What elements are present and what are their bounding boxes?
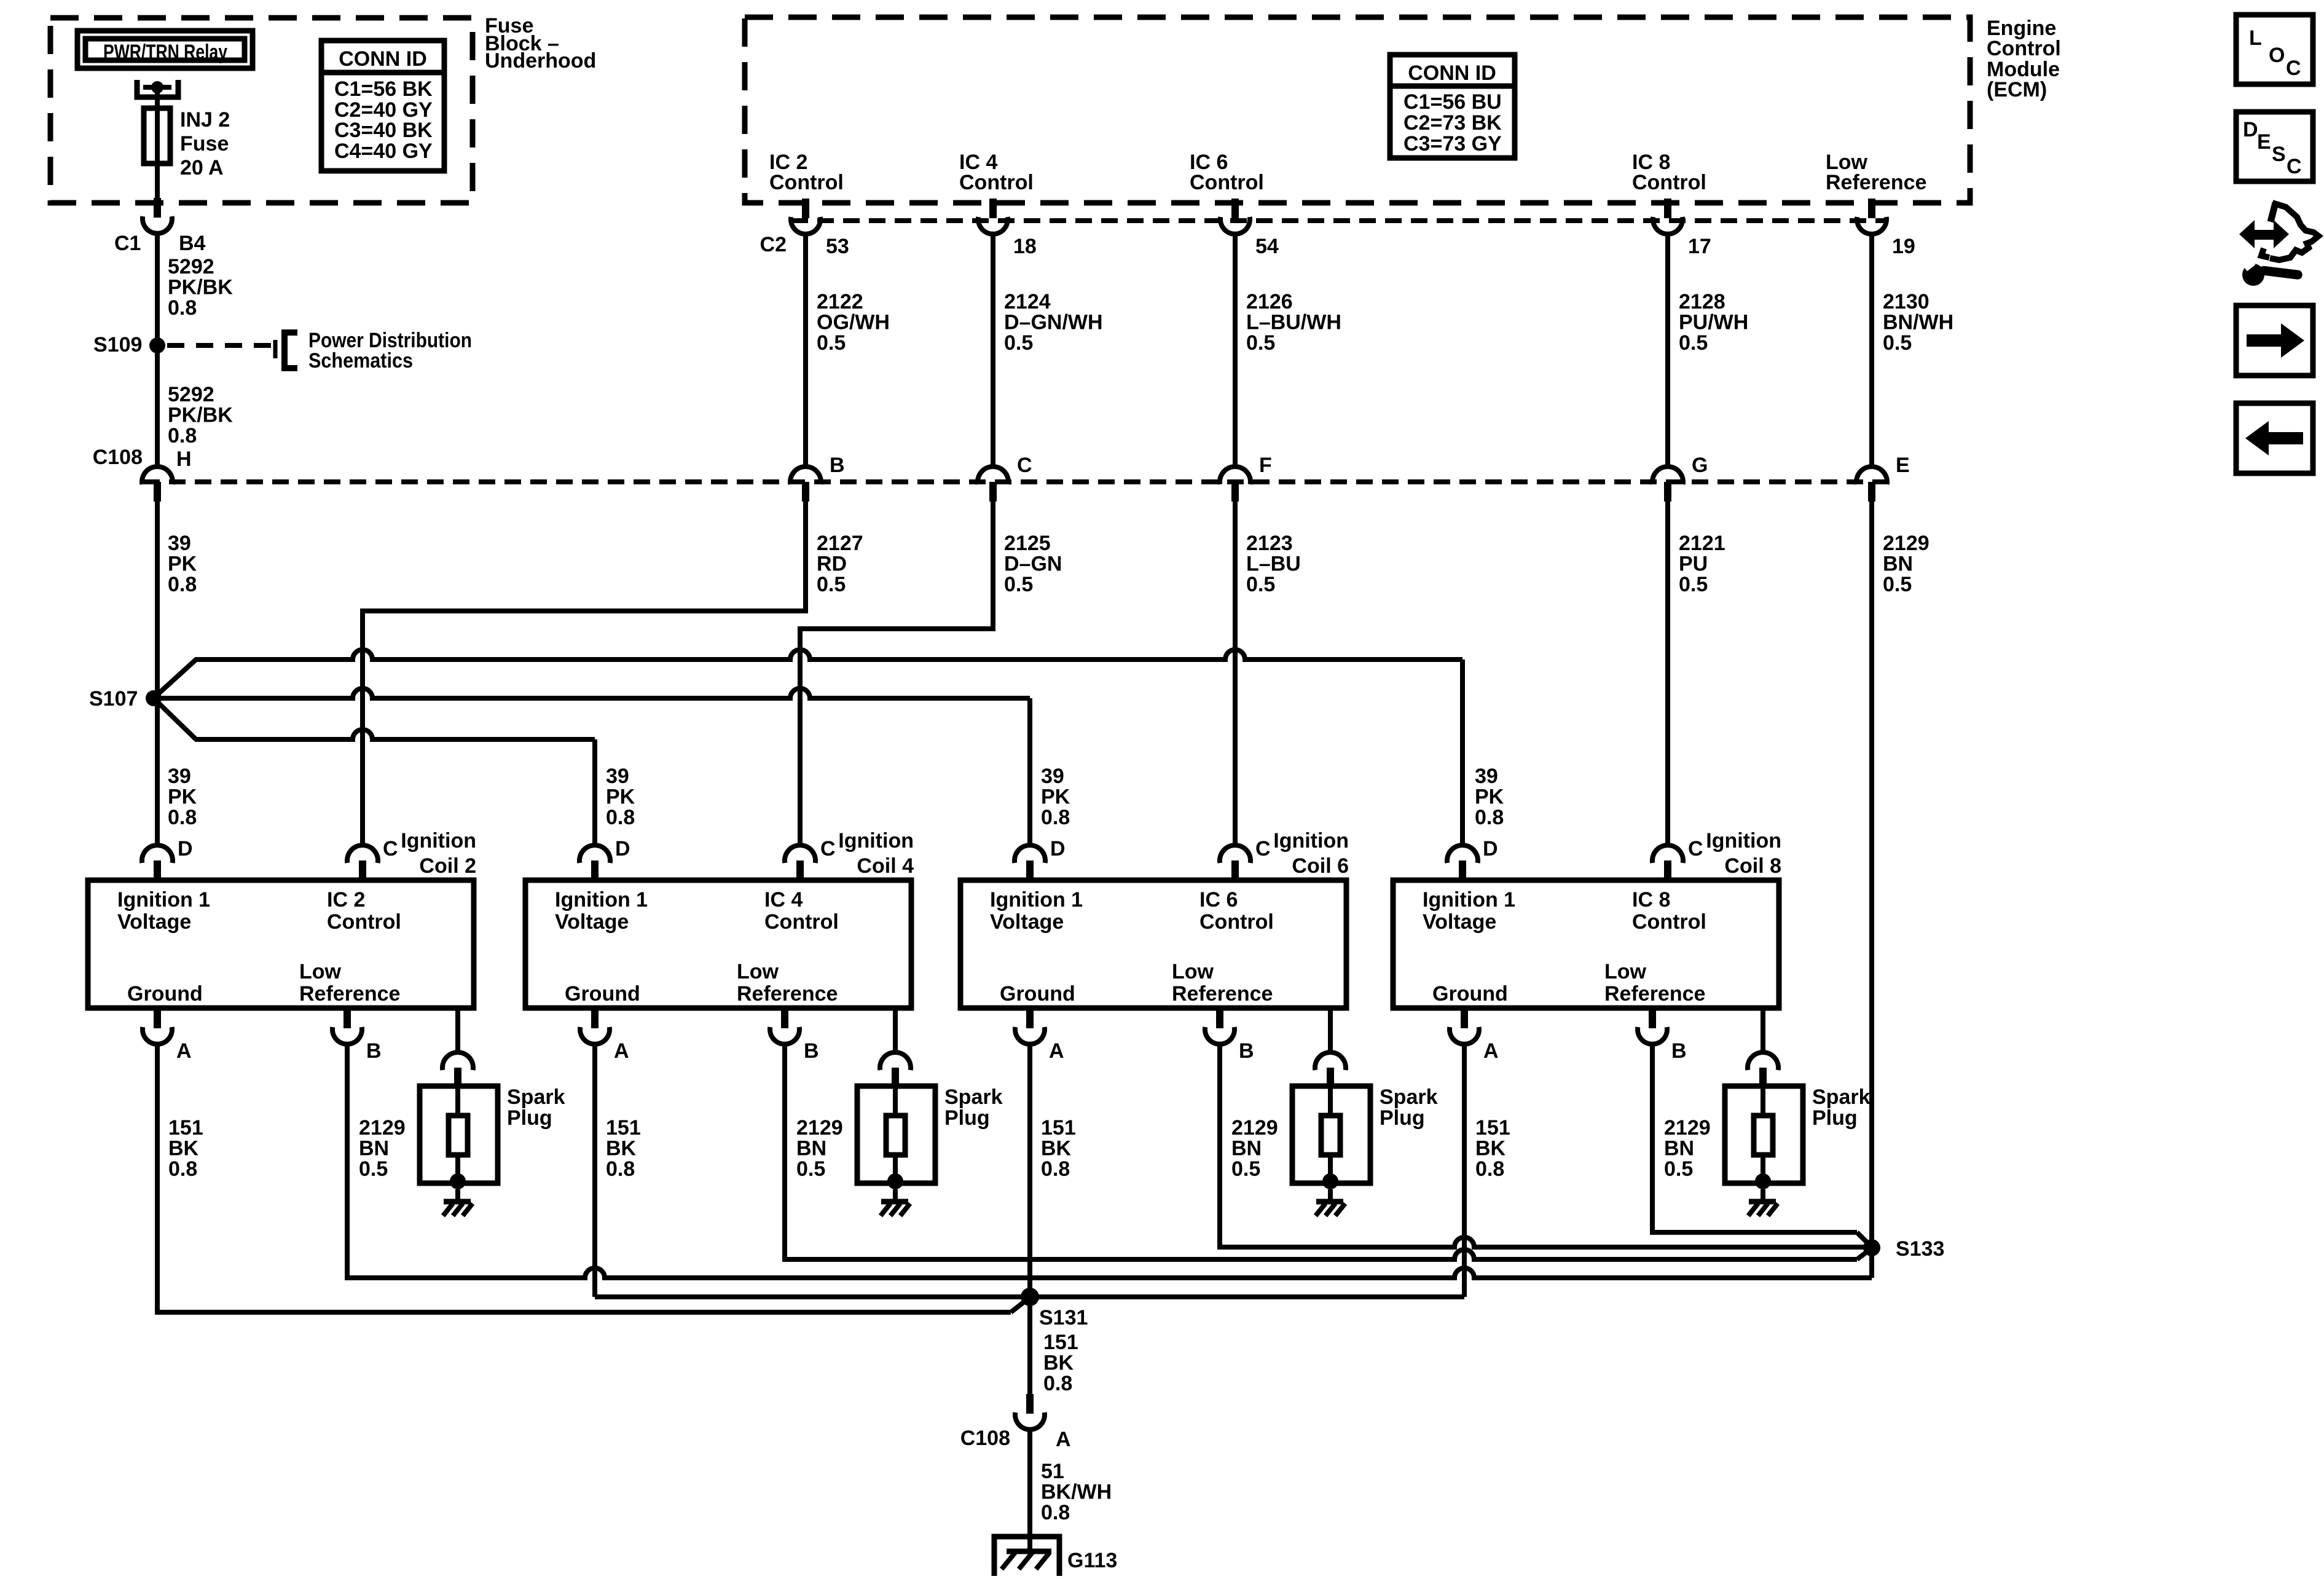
svg-text:CONN ID: CONN ID: [339, 47, 427, 71]
pin C connector: [978, 467, 1008, 502]
svg-text:IC 4: IC 4: [764, 888, 803, 912]
wire coil 8 low reference to S133: [1650, 1044, 1870, 1245]
svg-text:0.5: 0.5: [1004, 331, 1033, 355]
svg-text:O: O: [2269, 44, 2285, 67]
fuse block underhood dashed box: [50, 18, 473, 203]
svg-text:Voltage: Voltage: [990, 910, 1064, 934]
coil 2 pin D connector: [142, 845, 173, 880]
wire 2122 OG/WH: [803, 235, 808, 467]
wire 2125 D-GN to coil 4 C: [798, 502, 995, 847]
svg-text:Ground: Ground: [1000, 982, 1075, 1006]
spark plug connector coil 2: [442, 1052, 473, 1087]
svg-text:51: 51: [1041, 1460, 1064, 1483]
engine control module dashed box: [745, 17, 1970, 203]
ignition coil 8 box: [1393, 880, 1779, 1008]
svg-text:2124: 2124: [1004, 290, 1051, 313]
svg-text:Reference: Reference: [299, 982, 400, 1006]
svg-text:Spark: Spark: [507, 1085, 565, 1109]
wire 39 PK upper: [155, 502, 160, 695]
pin F connector: [1220, 467, 1250, 502]
spark plug connector coil 4: [880, 1052, 911, 1087]
pin 17 connector: [1653, 199, 1682, 234]
svg-text:C2=73 BK: C2=73 BK: [1403, 111, 1502, 135]
svg-text:5292: 5292: [168, 383, 214, 406]
svg-text:S: S: [2272, 143, 2286, 166]
svg-text:0.8: 0.8: [1043, 1372, 1072, 1395]
connector C108 pin A: [1015, 1394, 1045, 1430]
coil 2 pin C connector: [347, 845, 378, 880]
svg-text:0.8: 0.8: [606, 1157, 635, 1181]
svg-text:Ignition 1: Ignition 1: [117, 888, 210, 912]
splice S133: [1863, 1239, 1880, 1256]
svg-text:Plug: Plug: [944, 1106, 990, 1130]
svg-text:2122: 2122: [817, 290, 863, 313]
svg-text:A: A: [1483, 1039, 1499, 1063]
svg-text:Control: Control: [327, 910, 401, 934]
svg-text:39: 39: [168, 765, 191, 788]
svg-text:C4=40 GY: C4=40 GY: [334, 140, 433, 163]
svg-text:0.5: 0.5: [817, 331, 846, 355]
svg-text:19: 19: [1892, 235, 1915, 258]
svg-text:BN: BN: [796, 1137, 826, 1160]
svg-text:A: A: [614, 1039, 629, 1063]
svg-text:B: B: [830, 454, 845, 477]
svg-text:0.8: 0.8: [1041, 1501, 1070, 1524]
svg-text:BN: BN: [1664, 1137, 1694, 1160]
svg-text:BK: BK: [606, 1137, 637, 1160]
svg-text:0.5: 0.5: [1004, 573, 1033, 596]
svg-text:2129: 2129: [1883, 532, 1929, 555]
svg-text:0.5: 0.5: [1664, 1157, 1693, 1181]
spark plug 4 ground: [881, 1189, 910, 1216]
coil 6 pin D connector: [1015, 845, 1045, 880]
coil 6 pin B connector: [1205, 1009, 1235, 1044]
svg-text:Ignition 1: Ignition 1: [1423, 888, 1515, 912]
svg-text:C: C: [1017, 454, 1032, 477]
svg-text:PWR/TRN Relay: PWR/TRN Relay: [103, 41, 227, 64]
svg-text:20 A: 20 A: [180, 156, 224, 179]
svg-text:IC 6: IC 6: [1199, 888, 1238, 912]
spark plug 6 ground: [1316, 1189, 1345, 1216]
wire coil 4 ground to S131: [592, 1044, 597, 1297]
wire coil 6 ground through S131: [1027, 1044, 1032, 1396]
coil 4 pin D connector: [579, 845, 610, 880]
svg-text:2126: 2126: [1246, 290, 1293, 313]
svg-text:B: B: [804, 1039, 819, 1063]
svg-text:Reference: Reference: [1826, 171, 1926, 194]
coil 2 pin B connector: [332, 1009, 362, 1044]
pin G connector: [1652, 467, 1683, 502]
svg-text:Ground: Ground: [127, 982, 203, 1006]
svg-text:IC 8: IC 8: [1632, 888, 1670, 912]
coil 2 pin A connector: [143, 1009, 172, 1044]
svg-text:D: D: [1483, 837, 1498, 860]
svg-text:C1=56 BU: C1=56 BU: [1403, 90, 1502, 114]
splice S131: [1021, 1288, 1039, 1306]
svg-text:2130: 2130: [1883, 290, 1929, 313]
coil 4 pin C connector: [785, 845, 815, 880]
pin 19 connector: [1857, 199, 1886, 234]
svg-text:BK: BK: [1475, 1137, 1506, 1160]
svg-text:17: 17: [1688, 235, 1711, 258]
coil 4 pin A connector: [580, 1009, 610, 1044]
svg-text:C: C: [1255, 837, 1271, 860]
svg-text:0.8: 0.8: [168, 296, 197, 320]
svg-text:C3=73 GY: C3=73 GY: [1403, 132, 1502, 156]
svg-text:5292: 5292: [168, 255, 214, 278]
svg-text:Control: Control: [1199, 910, 1274, 934]
splice S109: [149, 337, 165, 353]
svg-text:0.8: 0.8: [168, 573, 197, 596]
svg-text:CONN ID: CONN ID: [1408, 61, 1496, 85]
svg-text:C: C: [1688, 837, 1703, 860]
spark plug wire coil 2: [455, 1008, 460, 1053]
svg-text:Low: Low: [1604, 960, 1647, 983]
svg-text:S109: S109: [93, 333, 142, 356]
svg-text:0.8: 0.8: [168, 424, 197, 447]
coil 8 pin D connector: [1447, 845, 1478, 880]
ignition coil 2 box: [88, 880, 474, 1008]
svg-text:151: 151: [1041, 1116, 1076, 1140]
svg-text:D: D: [1050, 837, 1066, 860]
svg-text:BK: BK: [168, 1137, 199, 1160]
svg-text:0.5: 0.5: [1679, 573, 1708, 596]
wire 2127 RD to coil 2 C: [360, 502, 808, 847]
svg-text:PU: PU: [1679, 553, 1708, 576]
svg-text:Coil 2: Coil 2: [419, 854, 476, 878]
svg-text:Spark: Spark: [1812, 1085, 1871, 1109]
svg-text:INJ 2: INJ 2: [180, 108, 230, 132]
svg-text:B: B: [366, 1039, 382, 1063]
svg-text:C: C: [383, 837, 398, 860]
wire 51 BK/WH to ground: [1027, 1430, 1032, 1551]
svg-text:Low: Low: [737, 960, 779, 983]
svg-text:Underhood: Underhood: [485, 49, 596, 73]
spark plug 8: [1725, 1086, 1803, 1189]
wire 2123 L-BU to coil 6 C: [1233, 502, 1238, 847]
svg-text:D: D: [178, 837, 193, 860]
svg-text:Ground: Ground: [1432, 982, 1508, 1006]
svg-text:Voltage: Voltage: [555, 910, 629, 934]
svg-text:39: 39: [168, 532, 191, 555]
svg-text:Ignition 1: Ignition 1: [990, 888, 1083, 912]
S107 upper branch wire 39 PK to coil 8: [155, 650, 1462, 847]
svg-text:Reference: Reference: [737, 982, 838, 1006]
svg-text:BN: BN: [359, 1137, 389, 1160]
wire coil 2 ground to S131: [155, 1044, 1027, 1312]
coil 6 pin A connector: [1015, 1009, 1045, 1044]
coil 8 pin A connector: [1450, 1009, 1479, 1044]
svg-text:Reference: Reference: [1172, 982, 1273, 1006]
pin E connector: [1856, 467, 1887, 502]
S107 middle branch wire 39 PK to coil 6: [157, 688, 1030, 847]
svg-text:C: C: [2287, 155, 2302, 178]
relay contact symbol: [137, 80, 178, 97]
coil 6 pin C connector: [1220, 845, 1250, 880]
spark plug connector coil 6: [1315, 1052, 1346, 1087]
svg-text:2123: 2123: [1246, 532, 1293, 555]
coil 4 pin B connector: [770, 1009, 799, 1044]
wire coil 8 ground to S131: [595, 1044, 1464, 1297]
svg-text:2127: 2127: [817, 532, 863, 555]
svg-text:18: 18: [1013, 235, 1037, 258]
svg-text:0.5: 0.5: [1679, 331, 1708, 355]
svg-text:C1=56 BK: C1=56 BK: [334, 77, 433, 101]
fuse INJ 2 20A: [144, 108, 170, 163]
svg-text:C108: C108: [960, 1427, 1010, 1450]
wire 2129 BN to splice S133: [1869, 502, 1874, 1244]
svg-text:PK: PK: [168, 553, 197, 576]
svg-text:L: L: [2249, 26, 2262, 50]
svg-text:2129: 2129: [1231, 1116, 1278, 1140]
svg-text:C: C: [820, 837, 836, 860]
sidebar LOC icon: [2236, 15, 2313, 84]
svg-text:Ignition: Ignition: [1706, 829, 1781, 853]
svg-text:BK/WH: BK/WH: [1041, 1481, 1112, 1504]
svg-text:(ECM): (ECM): [1987, 78, 2047, 101]
wire coil 6 low reference to S133: [1217, 1044, 1864, 1247]
svg-text:B: B: [1239, 1039, 1254, 1063]
svg-text:C3=40 BK: C3=40 BK: [334, 119, 433, 142]
svg-text:39: 39: [606, 765, 629, 788]
svg-text:Voltage: Voltage: [1423, 910, 1496, 934]
svg-text:2129: 2129: [1664, 1116, 1711, 1140]
inline connector C108 dotted line: [143, 479, 1886, 484]
svg-text:F: F: [1259, 454, 1272, 477]
svg-text:0.5: 0.5: [1246, 331, 1275, 355]
ignition coil 4 box: [525, 880, 911, 1008]
svg-text:Ignition: Ignition: [838, 829, 914, 853]
svg-text:C: C: [2286, 57, 2301, 80]
wire fuse to C1: [155, 163, 160, 203]
wire 2124 D-GN/WH: [991, 235, 995, 467]
coil 8 pin B connector: [1638, 1009, 1667, 1044]
svg-text:B: B: [1671, 1039, 1687, 1063]
CONN ID table (ECM): [1390, 55, 1515, 158]
svg-text:Ignition: Ignition: [401, 829, 476, 853]
svg-text:0.8: 0.8: [168, 1157, 197, 1181]
sidebar back arrow icon: [2236, 403, 2313, 473]
wire 5292 PK/BK lower: [155, 349, 160, 467]
svg-text:Control: Control: [769, 171, 844, 194]
svg-text:D: D: [615, 837, 630, 860]
svg-text:PK: PK: [1041, 786, 1070, 809]
svg-text:PK: PK: [168, 786, 197, 809]
svg-text:Low: Low: [299, 960, 342, 983]
svg-text:Spark: Spark: [1380, 1085, 1438, 1109]
pin 54 connector: [1220, 199, 1250, 234]
svg-text:S131: S131: [1039, 1306, 1088, 1329]
svg-text:PK/BK: PK/BK: [168, 276, 233, 299]
svg-text:0.5: 0.5: [1883, 331, 1912, 355]
svg-text:2125: 2125: [1004, 532, 1051, 555]
spark plug wire coil 4: [893, 1008, 898, 1053]
svg-text:Low: Low: [1172, 960, 1214, 983]
wire 2128 PU/WH: [1665, 235, 1670, 467]
svg-text:BN: BN: [1883, 553, 1913, 576]
svg-text:53: 53: [826, 235, 849, 258]
svg-text:Schematics: Schematics: [308, 349, 413, 372]
spark plug wire coil 8: [1761, 1008, 1765, 1053]
svg-text:PK: PK: [606, 786, 635, 809]
coil 8 pin C connector: [1652, 845, 1683, 880]
svg-text:B4: B4: [179, 232, 206, 255]
wire coil 4 low reference to S133: [782, 1044, 1870, 1259]
svg-text:D–GN: D–GN: [1004, 553, 1062, 576]
wire relay to fuse: [155, 87, 160, 111]
svg-text:Ground: Ground: [565, 982, 640, 1006]
spark plug 8 ground: [1748, 1189, 1778, 1216]
svg-text:Control: Control: [1632, 171, 1706, 194]
svg-text:G: G: [1692, 454, 1708, 477]
svg-text:BN: BN: [1231, 1137, 1262, 1160]
dashed reference wire: [167, 343, 275, 348]
svg-text:PK: PK: [1475, 786, 1504, 809]
wire coil 2 low reference to S133: [345, 1044, 1872, 1278]
svg-text:0.8: 0.8: [1041, 1157, 1070, 1181]
svg-text:39: 39: [1475, 765, 1498, 788]
svg-text:Coil 8: Coil 8: [1724, 854, 1781, 878]
svg-text:H: H: [176, 447, 192, 471]
wire 2126 L-BU/WH: [1233, 235, 1238, 467]
svg-text:C1: C1: [114, 232, 141, 255]
svg-text:39: 39: [1041, 765, 1064, 788]
svg-text:Coil 4: Coil 4: [857, 854, 914, 878]
spark plug 2 ground: [443, 1189, 473, 1216]
svg-text:0.8: 0.8: [1475, 1157, 1504, 1181]
svg-text:0.8: 0.8: [606, 806, 635, 829]
svg-text:0.5: 0.5: [1883, 573, 1912, 596]
svg-text:C2: C2: [760, 233, 787, 256]
svg-text:A: A: [176, 1039, 192, 1063]
svg-text:L–BU: L–BU: [1246, 553, 1301, 576]
svg-text:RD: RD: [817, 553, 847, 576]
svg-text:0.5: 0.5: [817, 573, 846, 596]
svg-text:151: 151: [1475, 1116, 1510, 1140]
relay K: PWR/TRN Relay: [77, 31, 253, 68]
svg-text:D–GN/WH: D–GN/WH: [1004, 311, 1103, 334]
svg-text:L–BU/WH: L–BU/WH: [1246, 311, 1341, 334]
sidebar wrench icon: [2239, 203, 2318, 286]
svg-text:2121: 2121: [1679, 532, 1725, 555]
svg-text:0.5: 0.5: [1231, 1157, 1260, 1181]
svg-text:Control: Control: [1987, 37, 2061, 60]
svg-text:S133: S133: [1896, 1237, 1944, 1261]
svg-text:OG/WH: OG/WH: [817, 311, 890, 334]
svg-text:BK: BK: [1041, 1137, 1072, 1160]
svg-text:PK/BK: PK/BK: [168, 404, 233, 427]
svg-text:0.8: 0.8: [1475, 806, 1504, 829]
svg-text:0.5: 0.5: [1246, 573, 1275, 596]
CONN ID table (fuse block): [321, 41, 444, 171]
spark plug 6: [1292, 1086, 1370, 1189]
svg-text:G113: G113: [1067, 1549, 1117, 1572]
svg-text:Control: Control: [1190, 171, 1264, 194]
svg-text:S107: S107: [89, 687, 138, 711]
svg-text:151: 151: [168, 1116, 203, 1140]
svg-text:Ignition 1: Ignition 1: [555, 888, 648, 912]
svg-text:0.8: 0.8: [168, 806, 197, 829]
wire 2130 BN/WH: [1869, 235, 1874, 467]
svg-text:Plug: Plug: [1812, 1106, 1858, 1130]
pin B connector: [790, 467, 821, 502]
svg-text:Voltage: Voltage: [117, 910, 191, 934]
svg-text:A: A: [1049, 1039, 1064, 1063]
svg-text:54: 54: [1255, 235, 1279, 258]
svg-text:D: D: [2243, 118, 2258, 141]
spark plug 4: [857, 1086, 935, 1189]
svg-text:Fuse: Fuse: [180, 132, 229, 156]
ground G113: [994, 1537, 1059, 1576]
ECM connector C2 dotted line: [791, 218, 1886, 223]
S107 lower branch wire 39 PK to coil 4: [155, 700, 595, 847]
svg-text:0.8: 0.8: [1041, 806, 1070, 829]
svg-text:0.5: 0.5: [359, 1157, 388, 1181]
sidebar forward arrow icon: [2236, 305, 2313, 376]
connector C1: [143, 198, 172, 234]
svg-text:C108: C108: [93, 446, 143, 469]
svg-text:A: A: [1056, 1428, 1071, 1451]
pin 18 connector: [978, 199, 1008, 234]
sidebar DESC icon: [2236, 112, 2313, 181]
svg-text:151: 151: [606, 1116, 641, 1140]
svg-text:2129: 2129: [796, 1116, 843, 1140]
svg-text:0.5: 0.5: [796, 1157, 825, 1181]
wire 5292 PK/BK upper: [155, 234, 160, 342]
svg-text:E: E: [2257, 130, 2271, 154]
svg-text:Ignition: Ignition: [1273, 829, 1349, 853]
wire 2121 PU to coil 8 C: [1665, 502, 1670, 847]
svg-text:Reference: Reference: [1604, 982, 1705, 1006]
svg-text:2128: 2128: [1679, 290, 1725, 313]
svg-text:Control: Control: [1632, 910, 1706, 934]
svg-text:BN/WH: BN/WH: [1883, 311, 1953, 334]
ignition coil 6 box: [960, 880, 1346, 1008]
svg-text:Plug: Plug: [1380, 1106, 1425, 1130]
reference bracket: [275, 333, 297, 368]
pin 53 connector: [791, 199, 820, 234]
svg-text:BK: BK: [1043, 1352, 1074, 1375]
svg-text:Control: Control: [959, 171, 1034, 194]
svg-text:Control: Control: [764, 910, 839, 934]
svg-text:IC 2: IC 2: [327, 888, 365, 912]
spark plug connector coil 8: [1748, 1052, 1778, 1087]
svg-text:Spark: Spark: [944, 1085, 1003, 1109]
svg-text:E: E: [1896, 454, 1910, 477]
svg-text:Plug: Plug: [507, 1106, 552, 1130]
svg-text:PU/WH: PU/WH: [1679, 311, 1748, 334]
svg-text:2129: 2129: [359, 1116, 406, 1140]
spark plug 2: [420, 1086, 498, 1189]
spark plug wire coil 6: [1328, 1008, 1333, 1053]
svg-text:Coil 6: Coil 6: [1292, 854, 1349, 878]
splice S107: [146, 690, 162, 706]
svg-text:151: 151: [1043, 1331, 1078, 1354]
wire 39 PK to coil 2 D: [155, 698, 160, 847]
connector C108 pin H: [142, 467, 173, 502]
